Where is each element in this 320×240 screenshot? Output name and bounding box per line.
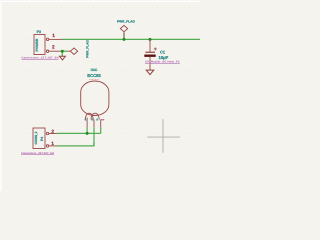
svg-text:P4: P4 — [40, 137, 44, 141]
svg-text:U1C: U1C — [91, 68, 98, 72]
svg-text:PWR_FLAG: PWR_FLAG — [86, 40, 90, 58]
svg-text:P3: P3 — [37, 30, 41, 34]
svg-text:valve: valve — [90, 78, 100, 81]
svg-text:2: 2 — [52, 45, 55, 51]
svg-text:2: 2 — [51, 129, 54, 135]
svg-text:ECC83: ECC83 — [87, 73, 101, 78]
svg-text:CONN_2: CONN_2 — [34, 131, 38, 144]
svg-text:C1: C1 — [160, 49, 166, 54]
svg-text:1: 1 — [51, 141, 54, 147]
svg-text:PWR_FLAG: PWR_FLAG — [117, 20, 135, 24]
svg-text:1: 1 — [52, 33, 55, 39]
svg-text:POWER: POWER — [35, 38, 39, 51]
svg-text:10µF: 10µF — [159, 55, 169, 60]
